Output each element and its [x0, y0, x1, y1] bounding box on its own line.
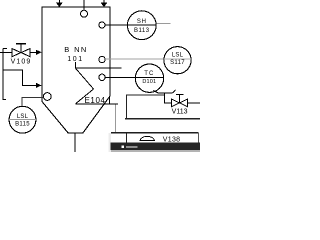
- gray signal line nozzle to LSL S117: [105, 58, 191, 60]
- instrument circle TC D101: [135, 64, 163, 92]
- taskbar text: [126, 146, 138, 148]
- pipe valve V109 to vessel with arrow: [30, 50, 42, 55]
- left branch line (vertical from V109 pipe): [3, 48, 7, 100]
- svg-text:V113: V113: [172, 109, 188, 116]
- svg-text:V109: V109: [11, 59, 32, 66]
- svg-text:V138: V138: [163, 136, 181, 143]
- pipe from left edge to valve V109: [0, 51, 13, 53]
- svg-text:D101: D101: [142, 79, 156, 85]
- svg-text:B115: B115: [15, 122, 30, 128]
- light gray column bottom left of taskbar: [108, 133, 111, 152]
- vessel label B NN 101: [64, 45, 88, 63]
- signal line nozzle to LSL B115: [22, 97, 44, 106]
- instrument circle SH B113: [127, 11, 156, 40]
- right wall stub at heater penetration: [109, 96, 111, 103]
- gray strip below taskbar: [111, 150, 200, 152]
- right nozzle circle (to SH B113): [99, 22, 105, 28]
- left nozzle circle (to LSL B115): [43, 93, 51, 101]
- svg-text:101: 101: [67, 56, 83, 63]
- taskbar icon: [122, 146, 125, 149]
- heater E104 element: [75, 62, 121, 104]
- svg-text:S117: S117: [170, 60, 185, 66]
- dark taskbar: [111, 143, 201, 150]
- second inlet L-path with arrow: [3, 70, 41, 88]
- white panel A (faceplate box around V113): [125, 95, 200, 119]
- gray window edge line (left of panel): [115, 105, 117, 134]
- inlet arrow 2 (top right feed): [101, 0, 108, 7]
- gray stub right of SH B113: [156, 23, 170, 25]
- svg-text:LSL: LSL: [17, 114, 29, 120]
- right nozzle circle (to LSL S117): [99, 56, 105, 62]
- valve V113: [172, 94, 188, 106]
- instrument circle LSL S117: [164, 47, 191, 74]
- valve V109: [12, 44, 30, 57]
- panel B (valve list row): [111, 133, 199, 143]
- inlet arrow 1 (top left feed): [56, 0, 63, 7]
- vessel B NN-101 outline: [42, 7, 110, 133]
- svg-text:E104: E104: [85, 96, 106, 105]
- pump/valve icon in list row: [140, 136, 154, 140]
- svg-text:SH: SH: [137, 19, 147, 25]
- control line TC D101 to valve V113: [153, 90, 175, 103]
- svg-text:TC: TC: [144, 71, 154, 77]
- svg-text:B NN: B NN: [64, 45, 88, 54]
- signal line nozzle to TC D101: [105, 76, 163, 78]
- right nozzle circle (to TC D101): [99, 74, 105, 80]
- top nozzle circle: [81, 10, 88, 17]
- signal line nozzle to SH B113: [105, 24, 156, 26]
- vessel outlet pipe: [74, 133, 76, 152]
- top nozzle dip line: [83, 0, 85, 10]
- svg-text:LSL: LSL: [172, 53, 184, 59]
- svg-text:B113: B113: [134, 28, 150, 34]
- pipe from valve V113 to right edge: [187, 102, 200, 104]
- instrument circle LSL B115: [9, 106, 36, 133]
